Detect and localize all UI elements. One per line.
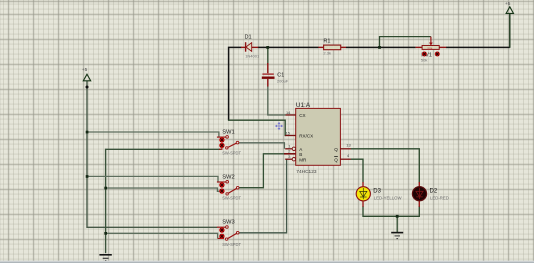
svg-text:D1: D1 — [245, 35, 252, 41]
svg-text:LED-YELLOW: LED-YELLOW — [374, 196, 403, 201]
svg-text:C1: C1 — [277, 72, 284, 78]
svg-text:50k: 50k — [428, 46, 433, 50]
svg-text:4: 4 — [347, 153, 350, 158]
svg-text:+5: +5 — [505, 1, 511, 7]
svg-text:200uF: 200uF — [277, 79, 289, 84]
svg-text:R1: R1 — [323, 39, 330, 45]
svg-text:RX/CX: RX/CX — [299, 134, 313, 139]
svg-text:D2: D2 — [430, 188, 438, 194]
svg-text:50k: 50k — [421, 57, 427, 62]
svg-text:74HC123: 74HC123 — [296, 169, 317, 175]
svg-text:Q: Q — [334, 157, 338, 162]
svg-text:1N4001: 1N4001 — [245, 53, 260, 58]
svg-text:+5: +5 — [82, 67, 88, 73]
svg-text:14: 14 — [286, 110, 291, 115]
svg-text:15: 15 — [286, 130, 290, 135]
svg-text:SW2: SW2 — [222, 175, 235, 181]
svg-text:13: 13 — [346, 143, 350, 148]
svg-text:3: 3 — [288, 154, 290, 159]
svg-text:Q: Q — [334, 147, 338, 152]
svg-text:CX: CX — [299, 113, 305, 118]
svg-text:SW-SPDT: SW-SPDT — [222, 196, 241, 201]
svg-text:LED-RED: LED-RED — [430, 195, 449, 200]
svg-text:2: 2 — [288, 149, 290, 154]
svg-text:SW3: SW3 — [222, 220, 235, 226]
svg-text:SW-SPDT: SW-SPDT — [222, 242, 241, 247]
svg-text:U1:A: U1:A — [296, 102, 311, 109]
svg-text:D3: D3 — [373, 189, 381, 195]
svg-text:2.3k: 2.3k — [323, 51, 331, 56]
svg-text:SW1: SW1 — [222, 130, 235, 136]
svg-text:SW-SPDT: SW-SPDT — [222, 151, 241, 156]
svg-text:B: B — [299, 152, 302, 157]
svg-text:MR: MR — [299, 157, 307, 162]
